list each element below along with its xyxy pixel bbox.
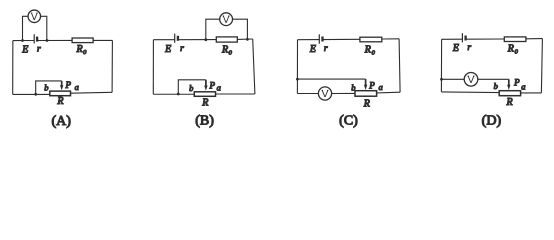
svg-text:P: P [513, 78, 520, 88]
wire bottom A (right segment) [71, 91, 113, 94]
node dot B left of voltmeter [204, 38, 207, 41]
wire top C (left to battery) [298, 39, 320, 41]
wire right vertical B [253, 39, 255, 94]
svg-text:a: a [378, 82, 382, 92]
wire top D (battery to R0) [466, 38, 505, 40]
wire bottom D (left segment) [441, 91, 499, 94]
svg-text:r: r [324, 44, 328, 54]
svg-text:R: R [75, 44, 82, 55]
node dot A bottom junction [34, 93, 37, 96]
battery E r (C) [319, 34, 322, 43]
svg-text:E: E [21, 45, 28, 56]
svg-text:(A): (A) [51, 114, 71, 129]
node dot A right of voltmeter [46, 39, 49, 42]
wire top D (R0 to right corner) [526, 38, 543, 40]
label R0 (A) [75, 44, 87, 56]
svg-text:R: R [56, 96, 63, 107]
wire top C (battery to R0) [323, 38, 360, 40]
svg-text:b: b [44, 82, 48, 92]
svg-text:P: P [208, 81, 215, 91]
svg-text:(C): (C) [339, 114, 358, 129]
rheostat R (D) [499, 91, 520, 96]
voltmeter branch wire left (A) [23, 16, 29, 40]
rheostat R (A) [50, 91, 71, 96]
svg-text:r: r [180, 44, 184, 54]
svg-text:a: a [75, 82, 79, 92]
wire top B (R0 to right corner) [237, 38, 252, 40]
voltmeter U3 (C) [318, 87, 331, 100]
wire left vertical A [12, 41, 14, 95]
svg-text:E: E [309, 44, 316, 55]
wire bottom C (rheostat to right corner) [377, 91, 401, 94]
svg-text:0: 0 [515, 49, 519, 56]
svg-text:r: r [467, 43, 471, 53]
svg-text:R: R [507, 44, 514, 55]
svg-text:R: R [201, 97, 208, 108]
wire top A (battery to R0) [37, 39, 72, 41]
svg-text:R: R [364, 44, 371, 55]
slider branch wire (C) [297, 78, 365, 80]
rheostat R (B) [194, 92, 215, 97]
slider arrow P (D) [507, 85, 510, 90]
svg-text:0: 0 [372, 49, 376, 56]
node dot A left of voltmeter [21, 39, 24, 42]
node dot B bottom junction [177, 93, 180, 96]
wire bottom C (voltmeter to rheostat) [332, 92, 355, 94]
wire right vertical C [399, 39, 400, 92]
wire top B (left to battery) [153, 39, 174, 41]
svg-text:a: a [217, 83, 221, 93]
voltmeter U2 (B) [220, 13, 233, 26]
wire top A (R0 to right corner) [93, 39, 112, 41]
wire bottom A (left segment) [13, 93, 50, 95]
voltmeter U4 (D) [464, 73, 478, 87]
slider arrow P (B) [204, 86, 207, 91]
wire top C (R0 to right corner) [382, 38, 399, 40]
voltmeter branch wire left (B) [206, 19, 220, 40]
svg-text:P: P [64, 80, 71, 90]
wire left vertical B [152, 40, 154, 95]
wire left vertical D [440, 39, 442, 92]
resistor R0 (D) [504, 37, 526, 42]
wire bottom B (left segment) [153, 93, 194, 95]
wire left vertical C [296, 40, 298, 94]
wire right vertical A [111, 40, 113, 92]
resistor R0 (C) [360, 37, 382, 42]
rheostat R (C) [355, 91, 377, 97]
voltmeter branch wire right (B) [233, 19, 248, 39]
svg-text:R: R [505, 97, 512, 108]
battery E r (B) [175, 34, 178, 43]
svg-text:P: P [368, 81, 375, 91]
voltmeter branch wire right (A) [41, 16, 47, 40]
svg-text:E: E [164, 44, 171, 55]
node dot D on left wire [440, 78, 443, 81]
svg-text:b: b [351, 82, 355, 92]
resistor R0 (B) [216, 37, 237, 42]
battery E r (D) [462, 33, 465, 42]
svg-text:a: a [521, 81, 525, 91]
wire right vertical D [541, 39, 542, 93]
svg-text:R: R [221, 44, 228, 55]
label R0 (C) [364, 44, 376, 56]
slider branch wire (B) [178, 80, 206, 94]
slider branch wire (A) [36, 81, 62, 94]
svg-text:r: r [37, 45, 41, 55]
wire bottom B (right segment) [216, 93, 255, 95]
label R0 (B) [221, 44, 233, 56]
node dot B right of voltmeter [246, 38, 249, 41]
label R0 (D) [507, 44, 519, 56]
wire top A (left to battery) [13, 40, 34, 42]
svg-text:E: E [452, 43, 459, 54]
node dot C on left wire [296, 78, 299, 81]
wire bottom D (rheostat to right corner) [521, 92, 542, 94]
svg-text:b: b [494, 81, 498, 91]
slider arrow P (C) [364, 85, 367, 90]
svg-text:0: 0 [83, 49, 87, 56]
slider arrow P (A) [60, 85, 63, 90]
resistor R0 (A) [72, 38, 93, 43]
wire bottom C (left corner to voltmeter) [297, 93, 318, 95]
battery E r (A) [34, 34, 37, 43]
wire top B (battery to R0) [178, 39, 216, 41]
slider branch wire (D) [478, 78, 509, 80]
svg-text:b: b [189, 83, 193, 93]
svg-text:(B): (B) [195, 114, 214, 129]
svg-text:0: 0 [229, 49, 233, 56]
svg-text:R: R [363, 99, 370, 110]
wire top D (left to battery) [442, 38, 463, 40]
voltmeter U1 (A) [28, 10, 41, 23]
voltmeter branch wire left (D) [442, 78, 465, 80]
svg-text:(D): (D) [482, 114, 502, 129]
